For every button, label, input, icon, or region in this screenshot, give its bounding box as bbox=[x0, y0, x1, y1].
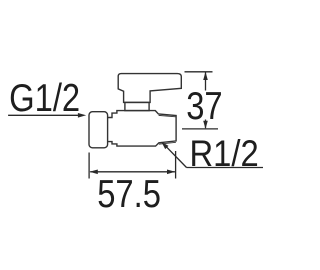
arrow right bbox=[167, 170, 175, 175]
svg-text:R1/2: R1/2 bbox=[190, 133, 259, 174]
valve bonnet (packing nut) bbox=[125, 102, 149, 110]
svg-text:57.5: 57.5 bbox=[97, 171, 161, 215]
svg-text:37: 37 bbox=[186, 84, 222, 128]
R1/2 leader bbox=[161, 142, 263, 168]
dim line lower segment bbox=[205, 120, 207, 129]
valve body with male thread end bbox=[107, 111, 176, 147]
extension line bottom (centerline) bbox=[182, 128, 218, 130]
thread crest line top bbox=[159, 115, 176, 116]
thread crest line bottom bbox=[159, 142, 176, 144]
arrow up bbox=[203, 72, 208, 80]
dim line bbox=[90, 171, 175, 173]
G1/2 arrow bbox=[8, 113, 86, 118]
extension line right bbox=[175, 151, 177, 179]
arrow left bbox=[90, 170, 98, 175]
dim line upper segment bbox=[205, 73, 207, 91]
dimension 57.5 bbox=[89, 151, 176, 179]
coupling nut G1/2 bbox=[89, 112, 108, 148]
svg-text:G1/2: G1/2 bbox=[9, 75, 80, 119]
extension line top (handle top) bbox=[185, 71, 213, 73]
arrow down bbox=[203, 121, 208, 129]
valve handle lever bbox=[118, 74, 181, 103]
extension line left bbox=[88, 153, 90, 179]
dimension 37 bbox=[182, 72, 218, 129]
